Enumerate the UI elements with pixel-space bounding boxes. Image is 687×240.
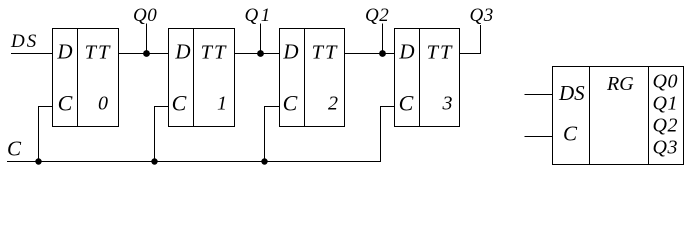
svg-text:C: C	[172, 91, 187, 116]
svg-text:C: C	[58, 91, 73, 116]
svg-text:Q1: Q1	[245, 5, 273, 26]
wire Q0 stub	[146, 24, 148, 54]
flip-flop U2 box	[169, 29, 235, 127]
wire C bus	[7, 107, 395, 162]
svg-text:Q3: Q3	[470, 5, 494, 26]
wire C riser to U3	[265, 107, 280, 162]
node Q2 junction	[379, 50, 386, 57]
svg-text:Q1: Q1	[653, 93, 678, 115]
svg-text:TT: TT	[85, 42, 112, 64]
svg-text:DS: DS	[558, 81, 585, 105]
svg-text:D: D	[282, 40, 298, 64]
svg-text:2: 2	[328, 93, 338, 115]
wire C riser to U2	[155, 107, 169, 162]
svg-text:DS: DS	[10, 31, 38, 52]
node C junction at U1	[35, 158, 41, 164]
wire DS input	[11, 53, 53, 55]
wire Q2 stub	[382, 24, 384, 54]
wire Q1 stub	[260, 24, 262, 54]
wire U3.Q to U4.D	[345, 53, 395, 55]
svg-text:Q2: Q2	[653, 115, 678, 137]
svg-text:TT: TT	[201, 42, 228, 64]
svg-text:D: D	[398, 40, 414, 64]
svg-text:D: D	[56, 40, 72, 64]
svg-text:TT: TT	[312, 42, 339, 64]
svg-text:TT: TT	[427, 42, 454, 64]
svg-text:C: C	[563, 122, 578, 146]
svg-text:3: 3	[442, 93, 453, 115]
svg-text:1: 1	[217, 93, 227, 115]
svg-text:Q0: Q0	[133, 5, 157, 26]
node C junction at U2	[151, 158, 157, 164]
node C junction at U3	[261, 158, 267, 164]
wire DS input stub of U5	[525, 94, 553, 96]
wire U2.Q to U3.D	[235, 53, 280, 55]
wire C input stub of U5	[525, 136, 553, 138]
node Q0 junction	[143, 50, 150, 57]
svg-text:C: C	[399, 91, 414, 116]
flip-flop U4 box	[395, 29, 460, 127]
flip-flop U1 box	[53, 29, 119, 127]
svg-text:Q2: Q2	[365, 5, 389, 26]
svg-text:Q0: Q0	[653, 71, 678, 93]
wire U1.Q to U2.D	[119, 53, 169, 55]
flip-flop U3 box	[280, 29, 345, 127]
svg-text:C: C	[283, 91, 298, 116]
svg-text:D: D	[174, 40, 190, 64]
svg-text:C: C	[7, 137, 22, 161]
svg-text:RG: RG	[606, 73, 634, 95]
wire U4.Q output	[460, 25, 481, 54]
svg-text:0: 0	[98, 93, 108, 115]
register U5 box RG	[553, 67, 684, 165]
wire C riser to U1	[39, 107, 53, 162]
node Q1 junction	[257, 50, 264, 57]
svg-text:Q3: Q3	[653, 137, 678, 159]
